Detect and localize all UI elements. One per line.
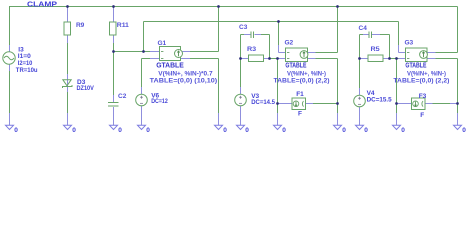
wire C3 lead right bbox=[255, 34, 270, 36]
node dot rail3 f3drop bbox=[395, 57, 398, 60]
wire I3 to ground bbox=[9, 65, 11, 126]
pin stub V6 bottom bbox=[141, 106, 143, 113]
pin stub ground x396 bbox=[396, 113, 398, 125]
pin stub F1 left bbox=[278, 103, 293, 105]
ground I3 bbox=[6, 125, 14, 129]
svg-text:GTABLE: GTABLE bbox=[285, 63, 306, 70]
wire G3 out- right bbox=[428, 58, 458, 60]
pin stub V4 bottom bbox=[359, 107, 361, 114]
pin stub R3 left bbox=[241, 58, 249, 60]
label G2 block bbox=[274, 39, 330, 84]
node dot F1 right bbox=[336, 102, 339, 105]
wire V6 to ground bbox=[141, 106, 143, 125]
pin stub ground x113 bbox=[113, 113, 115, 125]
op block G2 GTABLE bbox=[286, 48, 308, 62]
svg-text:DC=15.5: DC=15.5 bbox=[367, 96, 392, 103]
pin stub F3 right wire bbox=[450, 103, 458, 105]
diode D3 zener bbox=[62, 80, 72, 88]
svg-text:0: 0 bbox=[462, 127, 466, 134]
svg-text:G3: G3 bbox=[405, 39, 414, 46]
svg-text:0: 0 bbox=[223, 127, 227, 134]
label V6 block bbox=[151, 93, 168, 106]
capacitor C2 bbox=[108, 103, 119, 107]
svg-text:DC=12: DC=12 bbox=[151, 98, 168, 105]
wire C3 lead left bbox=[241, 34, 251, 36]
svg-text:F: F bbox=[420, 112, 424, 119]
pin stub F1 right bbox=[306, 103, 314, 105]
pin stub G1 out+ bbox=[181, 51, 191, 53]
pin stub C4 right bbox=[372, 34, 380, 36]
svg-text:CLAMP: CLAMP bbox=[27, 0, 57, 8]
svg-text:R9: R9 bbox=[76, 22, 85, 29]
wire rail3 R5 row bbox=[360, 58, 406, 60]
node dot bus x337 bbox=[336, 5, 339, 8]
pin stub R9 bottom bbox=[67, 35, 69, 43]
ground x337 bbox=[334, 125, 342, 129]
wire R11 to G1 IN+ bbox=[114, 51, 151, 53]
pin stub D3 bbox=[67, 74, 69, 92]
svg-text:TR=10u: TR=10u bbox=[16, 67, 38, 74]
pin stub ground x277 bbox=[277, 113, 279, 125]
ground symbols bbox=[6, 125, 462, 129]
svg-text:0: 0 bbox=[14, 127, 18, 134]
pin stub ground V4 bbox=[359, 106, 361, 125]
pin stub V6 top bbox=[141, 87, 143, 95]
wire G1 out- right bbox=[181, 58, 219, 60]
svg-text:I1=0: I1=0 bbox=[18, 53, 31, 60]
pin stub ground x337 bbox=[337, 113, 339, 125]
ground V3 bbox=[237, 125, 245, 129]
pin stub G1 out- bbox=[181, 58, 191, 60]
label F1 block bbox=[296, 91, 304, 117]
svg-text:C4: C4 bbox=[359, 25, 368, 32]
wire clamp drop x337 bbox=[337, 7, 339, 53]
node dot rail3 c4right bbox=[388, 57, 391, 60]
wire V3 vertical bbox=[240, 59, 242, 95]
pin stub G1 IN+ bbox=[150, 51, 160, 53]
pin stub ground V3 bbox=[240, 106, 242, 125]
pin stub V3 top bbox=[240, 87, 242, 95]
wire R11 top stub bbox=[113, 7, 115, 23]
pin stub R11 bottom bbox=[113, 35, 115, 43]
wire R9 top stub bbox=[67, 7, 69, 23]
wire F3 left pin row bbox=[397, 103, 413, 105]
current source I3 bbox=[3, 52, 15, 64]
pin stub G2 out- bbox=[308, 58, 316, 60]
wire x218 down to ground bbox=[218, 59, 220, 126]
pin stub C2 top bbox=[113, 95, 115, 102]
wire C4 loop left vertical bbox=[359, 35, 361, 59]
wire R9 to D3 bbox=[67, 35, 69, 80]
wire C2 to ground bbox=[113, 107, 115, 125]
pin stub R5 right bbox=[383, 58, 390, 60]
pin stub ground x9 bbox=[9, 113, 11, 125]
pin stub I3 top bbox=[9, 45, 11, 52]
svg-text:0: 0 bbox=[146, 127, 150, 134]
pin stub V4 top bbox=[359, 88, 361, 96]
node dot F3 right bbox=[456, 102, 459, 105]
ground C2 bbox=[110, 125, 118, 129]
ground D3 bbox=[64, 125, 72, 129]
node dot bus x218 bbox=[217, 5, 220, 8]
resistor R5 bbox=[368, 55, 383, 62]
svg-text:R11: R11 bbox=[117, 22, 129, 29]
pin stub C3 right bbox=[255, 34, 262, 36]
svg-text:DC=14.5: DC=14.5 bbox=[251, 99, 275, 106]
voltage source V6 bbox=[136, 94, 148, 106]
svg-text:I2=10: I2=10 bbox=[18, 60, 33, 67]
svg-text:0: 0 bbox=[118, 127, 122, 134]
wire R11 down to C2 bbox=[113, 35, 115, 102]
wire C4 lead right bbox=[372, 34, 390, 36]
pin stub ground x218 bbox=[218, 113, 220, 125]
pin stub C2 bottom bbox=[113, 107, 115, 114]
ground F3 right bbox=[454, 125, 462, 129]
node dot bus R9 bbox=[66, 5, 69, 8]
wire clamp drop x218 bbox=[218, 7, 220, 52]
wire G2 out- right bbox=[308, 58, 338, 60]
wire V4 to ground bbox=[359, 107, 361, 125]
node dot F1 left bbox=[276, 102, 279, 105]
svg-text:R3: R3 bbox=[247, 46, 256, 53]
wire V4 vertical bbox=[359, 59, 361, 96]
wire F1 left drop bbox=[277, 59, 279, 126]
svg-text:C3: C3 bbox=[239, 24, 248, 31]
voltage source V3 bbox=[235, 94, 247, 106]
pin stub R9 top bbox=[67, 8, 69, 22]
pin stub ground x457 bbox=[457, 113, 459, 125]
wire y21 horizontal G1 loop to G3 bbox=[144, 21, 399, 23]
pin stub G3 out+ bbox=[428, 52, 436, 54]
wire F3 right pin row bbox=[425, 103, 458, 105]
capacitor C3 bbox=[251, 32, 254, 39]
wire C3 loop left vertical bbox=[240, 35, 242, 59]
resistor R3 bbox=[249, 55, 264, 62]
pin stub G2 IN- bbox=[279, 58, 286, 60]
wire F1 right pin row bbox=[306, 103, 338, 105]
wire bus end drop x457 bbox=[457, 7, 459, 53]
label V3 block bbox=[251, 93, 275, 106]
svg-text:0: 0 bbox=[364, 127, 368, 134]
wire G2 out+ right bbox=[308, 52, 338, 54]
ground 0 labels bbox=[14, 127, 466, 134]
svg-text:TABLE=(0,0) (10,10): TABLE=(0,0) (10,10) bbox=[150, 77, 218, 84]
ground F1 left bbox=[274, 125, 282, 129]
cccs F3 bbox=[412, 98, 426, 110]
wire V6 feed G1 IN- bbox=[142, 58, 160, 60]
ground x218 bbox=[215, 125, 223, 129]
pin stub I3 bottom bbox=[9, 64, 11, 71]
pin stub G2 out+ bbox=[308, 52, 316, 54]
wire left drop from bus to I3 bbox=[9, 7, 11, 46]
wire D3 to ground bbox=[67, 87, 69, 125]
pin stub F3 left bbox=[397, 103, 413, 105]
svg-text:0: 0 bbox=[401, 127, 405, 134]
svg-text:G2: G2 bbox=[285, 39, 294, 46]
resistor R9 bbox=[64, 22, 71, 35]
label I3 block bbox=[16, 47, 38, 75]
svg-text:GTABLE: GTABLE bbox=[156, 63, 184, 70]
svg-text:C2: C2 bbox=[118, 93, 127, 100]
cccs F1 bbox=[292, 98, 306, 110]
wire F3 left drop bbox=[396, 59, 398, 126]
op block G1 GTABLE bbox=[160, 47, 183, 61]
node dot R11 IN+ bbox=[112, 50, 115, 53]
svg-text:F: F bbox=[298, 111, 302, 118]
capacitor C4 bbox=[369, 32, 372, 39]
svg-text:0: 0 bbox=[342, 127, 346, 134]
node dot y21 G2 drop bbox=[277, 20, 280, 23]
pin stub G3 out- bbox=[428, 58, 436, 60]
svg-text:F3: F3 bbox=[419, 93, 427, 100]
pin stub F3 right bbox=[425, 103, 433, 105]
wire x457 down to ground bbox=[457, 59, 459, 126]
pin stub V3 bottom bbox=[240, 106, 242, 113]
node dot x143 IN+ bbox=[142, 50, 145, 53]
svg-text:TABLE=(0,0) (2,2): TABLE=(0,0) (2,2) bbox=[393, 77, 449, 84]
wire rail2 R3 row bbox=[241, 58, 286, 60]
pin stub G3 IN- bbox=[399, 58, 406, 60]
pin stub G1 IN- bbox=[150, 58, 160, 60]
ground F3 left bbox=[393, 125, 401, 129]
pin stub C3 left bbox=[244, 34, 251, 36]
label F3 block bbox=[419, 93, 427, 119]
svg-text:GTABLE: GTABLE bbox=[405, 63, 426, 70]
wire G3 IN+ stub bbox=[399, 52, 406, 54]
voltage source V4 bbox=[354, 95, 366, 107]
wire V6 vertical bbox=[141, 59, 143, 95]
node dot rail2 c3right bbox=[268, 57, 271, 60]
ground V6 bbox=[138, 125, 146, 129]
wire C4 loop right vertical bbox=[389, 35, 391, 59]
pin stub ground x67 bbox=[67, 113, 69, 125]
wire x143 vertical bbox=[143, 22, 145, 52]
node dot rail2 f1drop bbox=[276, 57, 279, 60]
wire F1 left pin row bbox=[278, 103, 293, 105]
wire CLAMP bus top bbox=[9, 6, 458, 8]
svg-text:TABLE=(0,0) (2,2): TABLE=(0,0) (2,2) bbox=[274, 77, 330, 84]
wire G3 out+ right bbox=[428, 52, 458, 54]
wire G2 IN+ stub bbox=[279, 52, 286, 54]
pin stub C4 left bbox=[363, 34, 369, 36]
node dot F3 left bbox=[395, 102, 398, 105]
pin stub ground V6 bbox=[141, 106, 143, 125]
node dot rail3 left bbox=[358, 57, 361, 60]
pin stub R3 right bbox=[264, 58, 271, 60]
wire x337 down to ground bbox=[337, 59, 339, 126]
wire V3 to ground bbox=[240, 106, 242, 125]
label V4 block bbox=[367, 90, 392, 104]
label D3 bbox=[77, 79, 95, 92]
svg-text:0: 0 bbox=[245, 127, 249, 134]
op block G3 GTABLE bbox=[406, 48, 428, 62]
svg-text:G1: G1 bbox=[158, 40, 167, 47]
pin stub R11 top bbox=[113, 8, 115, 22]
svg-text:R5: R5 bbox=[371, 46, 380, 53]
label G3 block bbox=[393, 39, 449, 84]
wire C4 lead left bbox=[360, 34, 369, 36]
node dot bus R11 bbox=[112, 5, 115, 8]
ground V4 bbox=[356, 125, 364, 129]
node dot rail2 left bbox=[239, 57, 242, 60]
wire G1 out+ to clamp drop bbox=[181, 51, 219, 53]
svg-text:0: 0 bbox=[72, 127, 76, 134]
svg-text:DZ10V: DZ10V bbox=[77, 85, 95, 92]
wire G2 IN+ drop bbox=[278, 22, 280, 46]
svg-text:F1: F1 bbox=[296, 91, 304, 98]
resistor R11 bbox=[110, 22, 117, 35]
pin stub R5 left bbox=[360, 58, 368, 60]
label G1 block bbox=[150, 40, 218, 85]
svg-text:0: 0 bbox=[282, 127, 286, 134]
wire C3 loop right vertical bbox=[269, 35, 271, 59]
wire G3 IN+ drop bbox=[398, 22, 400, 46]
